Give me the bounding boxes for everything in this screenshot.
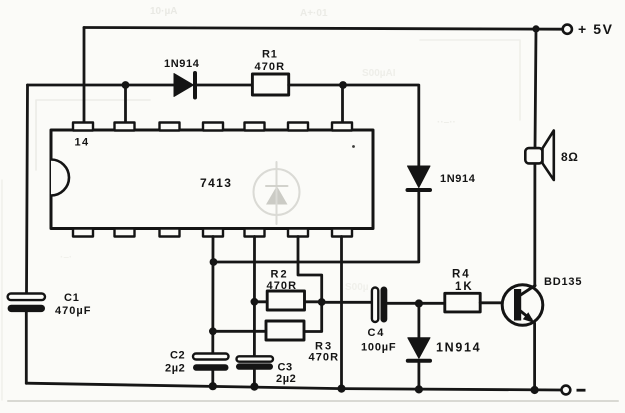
wire: R1 right to D2 anode (corner) bbox=[289, 85, 419, 166]
svg-text:8Ω: 8Ω bbox=[561, 150, 579, 164]
capacitor C3 2µ2 bbox=[236, 356, 273, 370]
svg-text:R1: R1 bbox=[262, 49, 278, 61]
diode D2 1N914 (vertical, pointing down) bbox=[408, 166, 431, 190]
wire: bottom rail bbox=[26, 383, 561, 390]
svg-text:S00µAI: S00µAI bbox=[362, 68, 396, 79]
node: junction emitter / bottom rail bbox=[531, 386, 539, 394]
svg-text:C1: C1 bbox=[64, 292, 80, 304]
svg-text:+ 5V: + 5V bbox=[578, 21, 614, 37]
wire: R3 left to pin 4 wire bbox=[213, 330, 266, 333]
svg-text:1N914: 1N914 bbox=[164, 58, 200, 70]
node: junction R2 right bbox=[318, 298, 326, 306]
svg-text:470µF: 470µF bbox=[55, 305, 91, 317]
wire: pin 4 down through C2 to bottom rail bbox=[211, 237, 214, 354]
node: junction R2 left / pin 5 wire bbox=[251, 298, 259, 306]
decorative watermark: bleed-through symbol inside IC area bbox=[254, 162, 300, 224]
wire: C1 bottom to rail corner bbox=[25, 312, 28, 383]
node: junction D3 / bottom rail bbox=[415, 385, 423, 393]
wire: pin 7 down to bottom rail bbox=[340, 237, 343, 389]
svg-text:1K: 1K bbox=[455, 281, 474, 293]
svg-text:R4: R4 bbox=[452, 269, 471, 281]
capacitor C1 470µF bbox=[8, 294, 45, 313]
node: junction C2 / bottom rail bbox=[209, 382, 217, 390]
svg-text:R2: R2 bbox=[271, 269, 289, 281]
wire: C1 top to y85 row bbox=[27, 85, 28, 294]
label: minus sign bbox=[577, 389, 586, 392]
terminal: +5V bbox=[563, 25, 572, 34]
node: junction C3 / bottom rail bbox=[250, 383, 258, 391]
wire: pin 5 down through C3 to bottom rail bbox=[253, 237, 256, 357]
svg-text:C3: C3 bbox=[278, 362, 293, 374]
wire: y85 row left segment (C1 to D1 anode) bbox=[28, 84, 175, 87]
resistor R3 bbox=[266, 321, 304, 340]
svg-text:14: 14 bbox=[75, 137, 90, 149]
wire: pin 6 L-shape down to R2 right / R3 right bbox=[298, 237, 322, 332]
wire: +5V top rail bbox=[84, 28, 563, 30]
resistor R4 bbox=[445, 293, 480, 312]
svg-text:470R: 470R bbox=[267, 280, 298, 292]
svg-text:C4: C4 bbox=[368, 327, 386, 339]
wire: C3 bottom to rail bbox=[253, 370, 256, 387]
wire: R4 to transistor base bbox=[480, 301, 513, 304]
svg-text:470R: 470R bbox=[309, 352, 340, 364]
diode D1 1N914 (horizontal, pointing right) bbox=[174, 73, 195, 98]
wire: C2 bottom to rail bbox=[211, 371, 214, 386]
node: junction pin 8 bbox=[339, 81, 347, 89]
svg-text:··–··: ··–·· bbox=[437, 117, 456, 128]
wire: D2 cathode down and left to pin 4 junction bbox=[214, 192, 419, 262]
svg-text:C2: C2 bbox=[170, 350, 185, 362]
svg-text:10·µA: 10·µA bbox=[150, 6, 177, 17]
node: junction pin 13 bbox=[122, 81, 130, 89]
wire: R2 left stub bbox=[254, 300, 267, 303]
svg-text:470R: 470R bbox=[255, 61, 286, 73]
IC U1 7413 body bbox=[51, 130, 373, 229]
IC U1 bottom pins (1,2,3,4,5,6,7) bbox=[73, 229, 352, 237]
wire: junction down to pin 8 bbox=[341, 85, 344, 123]
capacitor C4 100µF bbox=[372, 287, 387, 323]
wire: speaker bottom to collector bbox=[533, 164, 536, 287]
svg-text:2µ2: 2µ2 bbox=[165, 363, 185, 375]
wire: emitter down to bottom rail bbox=[533, 323, 536, 390]
decorative bleed-through artifacts bbox=[60, 6, 456, 293]
svg-text:2µ2: 2µ2 bbox=[276, 373, 296, 385]
svg-text:A+·01: A+·01 bbox=[300, 8, 328, 19]
node: junction +5V rail / speaker bbox=[532, 25, 539, 32]
wire: C4 right plate to R4 bbox=[387, 302, 445, 305]
svg-text:BD135: BD135 bbox=[544, 276, 582, 288]
transistor Q1 BD135 bbox=[502, 285, 543, 326]
wire: pin 14 up to +5V rail bbox=[83, 28, 86, 124]
capacitor C2 2µ2 bbox=[193, 354, 229, 371]
svg-text:·–·: ·–· bbox=[60, 252, 72, 263]
node: junction pin 7 wire / bottom rail bbox=[337, 385, 345, 393]
wire: junction down to pin 13 bbox=[124, 85, 127, 123]
node: junction C4 / R4 / D3 bbox=[415, 299, 423, 307]
speaker LS1 8R bbox=[525, 131, 554, 181]
resistor R1 bbox=[252, 74, 288, 95]
decorative ink speck bbox=[352, 145, 355, 148]
svg-text:S00µ: S00µ bbox=[345, 282, 369, 293]
svg-text:1N914: 1N914 bbox=[436, 341, 481, 355]
node: junction D2 line / pin 4 wire bbox=[210, 258, 218, 266]
diode D3 1N914 (vertical, pointing down) bbox=[408, 304, 430, 390]
IC U1 top pins (14,13,12,11,10,9,8) bbox=[73, 123, 352, 131]
node: junction R3 left / pin 4 wire bbox=[209, 327, 217, 335]
wire: D1 cathode to R1 bbox=[197, 84, 252, 87]
resistor R2 bbox=[267, 291, 304, 310]
wire: R2 right stub bbox=[305, 300, 322, 303]
IC U1 notch bbox=[51, 160, 69, 196]
wire: R2 right junction to C4 left plate bbox=[322, 301, 372, 304]
svg-text:100µF: 100µF bbox=[361, 342, 396, 354]
terminal: minus bbox=[562, 386, 571, 395]
wire: +5V junction down to speaker bbox=[535, 29, 536, 148]
svg-text:7413: 7413 bbox=[200, 176, 232, 190]
svg-text:1N914: 1N914 bbox=[440, 173, 476, 185]
